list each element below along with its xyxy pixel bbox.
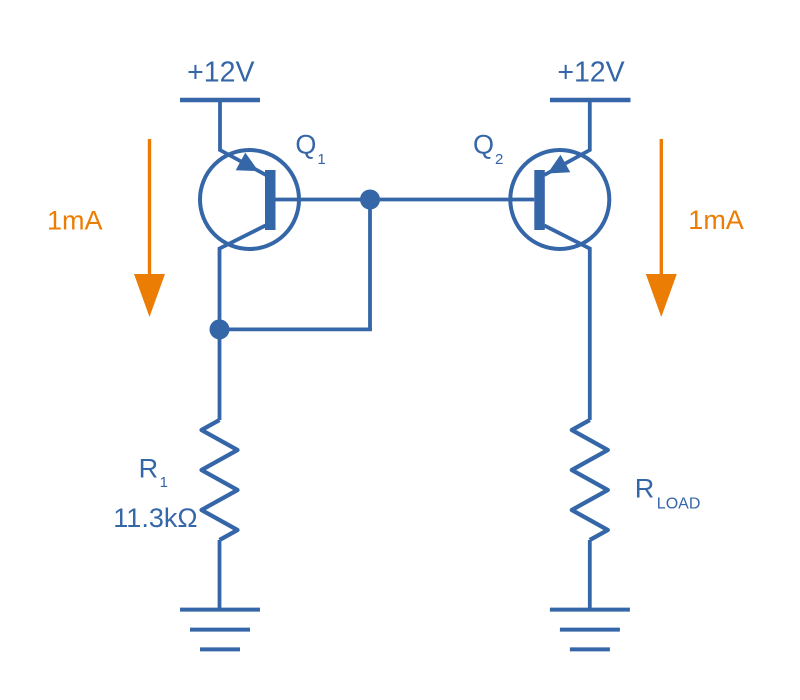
node A (base junction) (360, 190, 380, 210)
Q2 body circle (510, 150, 609, 249)
Q2 emitter arrow (PNP) (548, 155, 571, 174)
ground right (550, 610, 630, 650)
wire: feedback vertical from node A (368, 200, 372, 330)
wire node B to R1 (218, 329, 222, 420)
Q1 emitter wire from +12V (220, 100, 266, 175)
power rail +12V right (550, 98, 631, 102)
Q1 body circle (200, 150, 299, 249)
Q1 collector wire (220, 226, 266, 341)
wire: feedback horizontal to node B (220, 327, 372, 331)
transistor Q1 (200, 100, 299, 340)
RLOAD zigzag (572, 420, 608, 540)
svg-text:+12V: +12V (557, 57, 624, 89)
power rail +12V left (180, 98, 260, 102)
wire RLOAD to ground (588, 540, 592, 610)
Q2 collector wire (544, 226, 590, 421)
svg-text:1mA: 1mA (47, 206, 103, 236)
Q1 emitter arrow (PNP) (236, 153, 259, 172)
resistor R1 (202, 329, 238, 609)
Q2 emitter wire from +12V (544, 100, 590, 175)
Q2 base bar (534, 170, 545, 230)
svg-text:+12V: +12V (187, 57, 254, 89)
transistor Q2 (510, 100, 609, 420)
wire: base bus Q1 to Q2 (276, 198, 535, 202)
current arrow left (1mA) (134, 139, 165, 317)
Q1 base bar (265, 170, 276, 230)
svg-text:1mA: 1mA (688, 205, 744, 235)
svg-text:11.3kΩ: 11.3kΩ (113, 503, 197, 533)
wire R1 to ground (218, 540, 222, 610)
current arrow right (1mA) (646, 139, 677, 317)
R1 zigzag (202, 420, 238, 540)
resistor RLOAD (572, 420, 608, 610)
ground left (180, 610, 260, 650)
node B (collector junction) (210, 319, 230, 339)
